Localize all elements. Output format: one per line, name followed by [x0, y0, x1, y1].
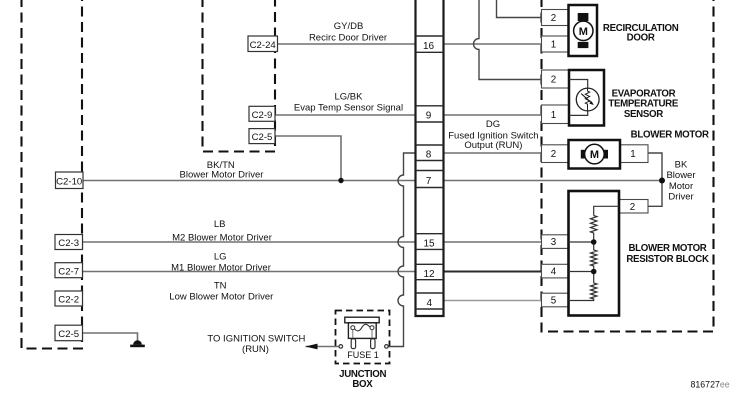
svg-text:C2-24: C2-24: [250, 40, 277, 51]
svg-text:BK: BK: [675, 160, 688, 171]
svg-text:Evap Temp Sensor Signal: Evap Temp Sensor Signal: [294, 103, 403, 114]
svg-text:LG: LG: [214, 252, 227, 263]
svg-text:FUSE 1: FUSE 1: [347, 350, 379, 360]
svg-text:15: 15: [423, 238, 435, 249]
svg-text:3: 3: [551, 237, 557, 248]
svg-text:C2-5: C2-5: [58, 329, 79, 340]
svg-text:BLOWER MOTOR: BLOWER MOTOR: [631, 130, 709, 141]
svg-text:M: M: [590, 149, 599, 161]
svg-text:(RUN): (RUN): [242, 344, 269, 355]
svg-text:C2-7: C2-7: [58, 266, 79, 277]
svg-text:M2 Blower Motor Driver: M2 Blower Motor Driver: [172, 232, 272, 243]
svg-text:SENSOR: SENSOR: [624, 109, 663, 120]
svg-text:Output (RUN): Output (RUN): [464, 140, 522, 151]
svg-text:7: 7: [426, 176, 432, 187]
svg-text:Blower: Blower: [666, 170, 695, 181]
svg-text:LG/BK: LG/BK: [335, 92, 364, 103]
svg-text:816727ee: 816727ee: [691, 380, 730, 390]
svg-text:TO IGNITION SWITCH: TO IGNITION SWITCH: [207, 333, 305, 344]
svg-text:1: 1: [630, 149, 635, 160]
svg-text:DOOR: DOOR: [627, 32, 655, 43]
svg-text:5: 5: [551, 296, 557, 307]
svg-text:Driver: Driver: [668, 192, 693, 203]
svg-text:Blower Motor Driver: Blower Motor Driver: [180, 169, 264, 180]
svg-text:1: 1: [551, 40, 556, 51]
svg-text:Low Blower Motor Driver: Low Blower Motor Driver: [169, 291, 273, 302]
svg-text:16: 16: [423, 41, 435, 52]
svg-text:2: 2: [551, 75, 556, 86]
svg-text:GY/DB: GY/DB: [334, 21, 364, 32]
svg-text:DG: DG: [486, 119, 500, 130]
svg-text:C2-9: C2-9: [252, 110, 273, 121]
svg-text:4: 4: [551, 267, 557, 278]
svg-text:2: 2: [630, 202, 635, 213]
svg-text:C2-3: C2-3: [58, 238, 79, 249]
svg-text:8: 8: [426, 149, 432, 160]
svg-text:9: 9: [426, 111, 432, 122]
svg-text:2: 2: [551, 13, 556, 24]
svg-text:M: M: [579, 26, 588, 38]
svg-text:2: 2: [551, 149, 556, 160]
svg-text:Motor: Motor: [669, 181, 693, 192]
svg-text:M1 Blower Motor Driver: M1 Blower Motor Driver: [171, 263, 271, 274]
svg-text:TN: TN: [214, 281, 227, 292]
svg-text:C2-10: C2-10: [56, 177, 82, 188]
svg-text:RESISTOR BLOCK: RESISTOR BLOCK: [626, 254, 709, 265]
svg-text:C2-5: C2-5: [252, 132, 273, 143]
svg-text:BLOWER MOTOR: BLOWER MOTOR: [628, 243, 706, 254]
svg-text:LB: LB: [214, 219, 226, 230]
svg-text:1: 1: [551, 110, 556, 121]
svg-text:12: 12: [423, 269, 435, 280]
svg-text:4: 4: [427, 298, 433, 309]
svg-text:C2-2: C2-2: [58, 295, 79, 306]
svg-text:BOX: BOX: [352, 379, 373, 390]
svg-text:Recirc Door Driver: Recirc Door Driver: [309, 33, 387, 44]
